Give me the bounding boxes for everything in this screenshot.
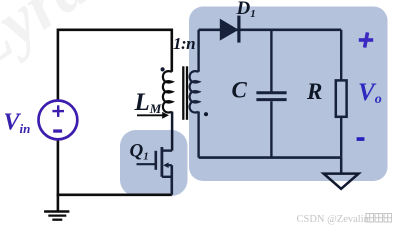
label plus output [359, 32, 373, 47]
wire bottom rail left [57, 194, 172, 197]
svg-text:LM: LM [134, 89, 162, 116]
voltage source Vin [39, 101, 78, 140]
ground left [44, 212, 69, 220]
top rail secondary [199, 28, 342, 31]
channel bar [160, 147, 163, 177]
svg-text:R: R [306, 79, 322, 104]
secondary winding [190, 71, 199, 112]
watermark diagonal [0, 0, 101, 85]
svg-text:Vin: Vin [4, 110, 31, 137]
highlight box Q1 [120, 130, 188, 196]
wire bottom-left [57, 139, 60, 211]
wire primary to drain [171, 112, 174, 151]
gate lead [137, 163, 156, 165]
svg-text:Zyra: Zyra [0, 0, 101, 85]
source lead [162, 176, 172, 178]
secondary vertical top [197, 30, 199, 72]
svg-text:C: C [232, 78, 248, 103]
svg-text:CSDN @Zevalin: CSDN @Zevalin [297, 214, 370, 225]
transistor Q1 [137, 147, 173, 195]
secondary vertical bottom [197, 112, 199, 158]
diode D1 [220, 19, 239, 41]
dot primary [161, 67, 165, 71]
dot secondary [204, 112, 208, 116]
arrow LM [137, 114, 164, 116]
gate bar [155, 151, 158, 170]
svg-text:1:n: 1:n [173, 34, 195, 53]
capacitor C [270, 30, 272, 92]
body lead [165, 164, 172, 166]
drain lead [162, 149, 172, 151]
label minus output [357, 137, 365, 141]
source vertical [171, 165, 174, 195]
ground right [324, 174, 359, 189]
core [183, 66, 187, 120]
bottom rail secondary [199, 156, 342, 159]
ground right stub [340, 158, 343, 174]
body arrow head [163, 162, 168, 168]
wire top-left loop [58, 30, 172, 101]
svg-text:D1: D1 [236, 0, 256, 20]
resistor R [340, 30, 342, 81]
highlight box secondary [189, 7, 388, 182]
primary winding [163, 71, 172, 112]
